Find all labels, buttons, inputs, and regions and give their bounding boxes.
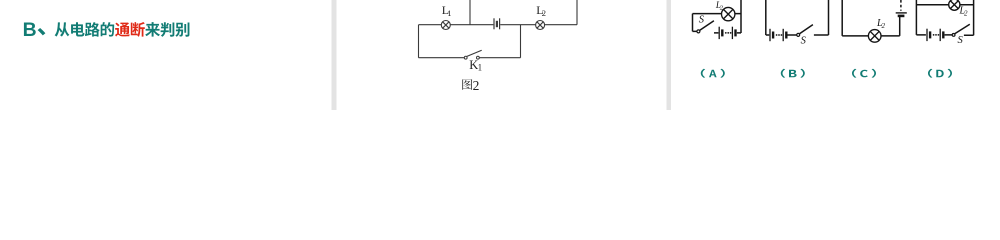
- svg-text:2: 2: [964, 10, 968, 18]
- svg-text:2: 2: [542, 8, 546, 18]
- svg-text:S: S: [801, 36, 807, 47]
- svg-text:2: 2: [473, 78, 480, 93]
- svg-text:1: 1: [447, 8, 451, 18]
- svg-text:2: 2: [882, 22, 886, 30]
- svg-text:B: B: [23, 19, 37, 41]
- svg-text:S: S: [699, 15, 705, 26]
- svg-text:S: S: [958, 35, 964, 46]
- svg-text:1: 1: [478, 63, 483, 73]
